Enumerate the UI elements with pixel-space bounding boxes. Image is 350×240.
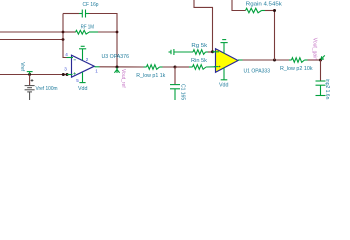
capacitor inp2 1.6n [316,81,326,96]
svg-text:5: 5 [76,78,79,83]
ground (above U3) [79,46,86,49]
node junction Vout_gain [319,59,322,62]
node dot (U3 pin 3 connection) [66,73,69,76]
svg-text:1: 1 [95,69,98,74]
wire (Rin row) [175,66,189,68]
wire (U1 output row) [243,59,292,61]
net marker Vout_gain (green arrow) [321,55,325,59]
capacitor CF [79,10,89,18]
U1 plus mark [219,66,221,68]
U3 plus mark [73,72,75,74]
svg-text:2: 2 [86,57,89,62]
wire (vertical from top edge) [194,0,213,52]
net marker Vout_ref (green arrow) [114,68,119,74]
wire (feedback vertical up) [274,11,276,61]
resistor RF 1M [63,31,76,33]
resistor R_low p1 1k [144,65,163,70]
node junction RF right [116,31,119,34]
node junction at U1 upper input [211,50,214,53]
plus sign of battery [31,79,34,82]
wire (RF right lead to right feedback vertical) [98,31,117,33]
svg-text:4: 4 [65,52,68,57]
wire (CF top row) [63,13,79,15]
ground (above U1) [221,40,228,43]
svg-text:Rg 5k: Rg 5k [191,43,207,49]
U3 pin 4 stub [67,57,74,59]
svg-text:Vout_ref: Vout_ref [120,69,126,88]
capacitor Cg (series with Rg) [169,49,194,55]
node junction Vref tap [28,73,31,76]
U1 bottom pin to Vdd [221,68,228,80]
net label Vref (green marker) [27,72,33,74]
svg-text:inp2 1.6n: inp2 1.6n [324,79,330,100]
U3 pin 3 stub [67,74,73,76]
node junction feedback tap [273,59,276,62]
U1 upper input stub overlay [213,51,219,53]
wire (left feedback vertical from CF row down to U3 pin 4) [63,14,67,58]
svg-text:Vdd: Vdd [219,83,229,89]
capacitor C1 165n [170,85,180,100]
svg-text:R_low p2 10k: R_low p2 10k [280,66,313,72]
U3 minus mark [74,59,76,61]
wire (Rgain row + left vertical to top edge) [232,0,246,11]
U3 bottom pin to Vdd [79,72,85,82]
wire (photodiode net, upper, from left edge to node A) [0,31,63,33]
resistor R_low p2 10k [289,58,308,63]
svg-text:U3 OPA376: U3 OPA376 [102,54,130,60]
svg-text:Vout_gain: Vout_gain [311,38,317,60]
wire (main input row to U3 pin 3) [0,74,67,76]
op-amp U3 OPA376 (triangle) [72,55,95,77]
wire (down to inp2 cap) [320,60,322,81]
U3 top pin to ground [82,49,84,60]
U1 lower input stub overlay [214,66,219,68]
resistor Rg 5k [193,50,209,55]
U1 upper input stub [213,51,217,53]
svg-text:Vref 100m: Vref 100m [36,86,58,92]
U1 output stub [238,59,243,61]
node junction at C1 [174,66,177,69]
U1 top pin to ground [223,43,225,54]
voltage source Vref 100m (battery) [29,75,31,86]
wire (U3 output row) [100,66,144,68]
svg-text:R_low p1 1k: R_low p1 1k [136,73,166,79]
wire (CF row right) [89,14,117,68]
node dot (feedback meets input row) [62,73,65,76]
U3 output stub [95,66,100,68]
svg-text:Rin 5k: Rin 5k [191,58,208,64]
wire (to Vout_gain node) [308,59,321,61]
svg-text:CF 16p: CF 16p [83,2,99,8]
resistor Rin 5k [189,65,216,70]
svg-text:C1 165n: C1 165n [180,84,186,100]
op-amp U1 OPA333 (triangle) [216,49,239,73]
wire (down to C1) [174,67,176,84]
node junction at RF/left wire [62,31,65,34]
node dot Rgain corner [273,9,276,12]
svg-text:3: 3 [64,67,67,72]
resistor Rgain 4.545k [246,8,266,13]
svg-text:Rgain 4.545k: Rgain 4.545k [246,2,283,8]
wire (Rg to U1 upper input, vertical from top edge) [208,51,213,53]
svg-text:U1 OPA333: U1 OPA333 [244,68,271,74]
wire (R_low p1 to node) [163,66,189,68]
wire (photodiode net, lower stub from left edge) [0,39,65,41]
svg-text:Vdd: Vdd [78,86,88,92]
node junction Vout_ref [116,66,119,69]
svg-text:RF 1M: RF 1M [81,25,94,31]
wire (Rgain right lead) [265,10,275,12]
svg-text:Vref: Vref [19,62,25,72]
node junction lower stub [62,38,65,41]
